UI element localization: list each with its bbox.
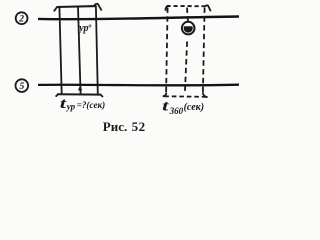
label t_ур=?(сек) [60,95,105,111]
node 5 (circled floor label) [15,79,28,92]
svg-text:360: 360 [169,106,184,116]
top cap of solid shaft [54,4,102,12]
label t_360(сек) [162,98,204,116]
ball with liquid level [182,22,195,35]
wire middle dashed vertical (lower part) [185,42,187,94]
wire middle vertical (dimension line) [78,6,81,94]
svg-text:=?(сек): =?(сек) [77,100,106,110]
wire left dashed vertical [166,8,168,94]
svg-text:52: 52 [132,119,146,134]
svg-text:Рис.: Рис. [103,119,127,134]
wire floor-2 line [38,17,239,20]
wire right vertical of solid shaft [96,6,98,94]
wire floor-5 line [38,84,239,87]
svg-text:ур: ур [66,102,76,112]
svg-text:t: t [162,98,169,114]
bottom cap of dashed shaft [163,92,208,97]
wire right dashed vertical [203,8,205,94]
node 2 (circled floor label) [16,12,28,24]
top cap of dashed shaft [165,5,210,11]
svg-text:(сек): (сек) [184,102,204,113]
arrowhead up on middle dimension line [78,86,82,91]
svg-text:t: t [60,95,67,111]
svg-text:2: 2 [18,15,24,25]
bottom cap of solid shaft [56,94,103,97]
svg-text:5: 5 [20,82,25,92]
stem hanging ball [187,18,189,22]
wire left vertical of solid shaft [59,7,61,95]
wire middle dashed vertical (upper part) [186,8,188,17]
